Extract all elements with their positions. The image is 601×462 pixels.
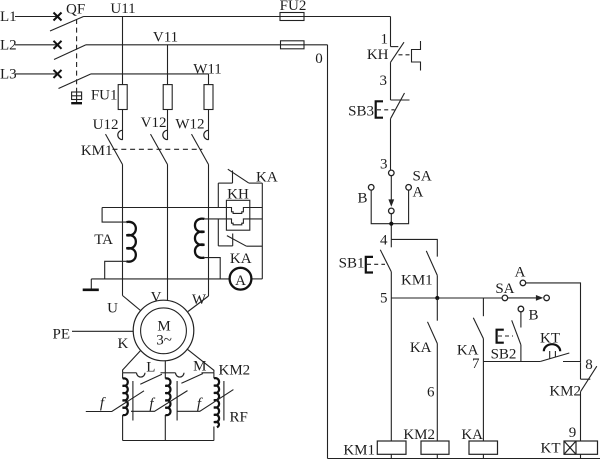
- svg-text:W11: W11: [193, 62, 222, 78]
- breaker QF terminal X L3: [54, 70, 62, 78]
- wire L rotor lead: [164, 361, 166, 373]
- current transformer TA secondary coil (W phase): [195, 219, 204, 258]
- contactor KM1 coil: [377, 441, 406, 454]
- wire K rotor lead: [123, 351, 141, 373]
- contactor KM1 main contact U blade: [106, 134, 123, 164]
- pushbutton SB3 plunger: [376, 101, 383, 117]
- wire meter right lead: [251, 278, 262, 280]
- selector SA deck2 B terminal: [518, 306, 524, 312]
- svg-text:KM1: KM1: [401, 273, 433, 289]
- pushbutton SB3 link dashes: [377, 109, 395, 111]
- svg-text:U12: U12: [93, 117, 119, 133]
- selector SA deck2 A terminal: [520, 280, 526, 286]
- svg-text:U: U: [107, 301, 118, 317]
- resistor RF phase M coil: [214, 373, 219, 427]
- motor M inner circle: [141, 308, 187, 354]
- breaker QF mechanical link (dashed): [76, 19, 78, 90]
- thermal relay KH heater box: [226, 200, 249, 230]
- breaker QF terminal X L1: [54, 13, 62, 21]
- contactor KM2 rotor contact 2 blade: [181, 374, 203, 384]
- relay KA shunt contact upper (NC): [218, 169, 262, 183]
- svg-text:B: B: [357, 191, 367, 207]
- contactor KM1 main contact U fixed hook: [118, 130, 123, 139]
- svg-text:f: f: [100, 396, 106, 412]
- resistor RF phase M core bar: [223, 381, 225, 421]
- wire L1 bus to control tap: [84, 16, 391, 18]
- wire rotor bank top right segment: [202, 372, 214, 374]
- wire KT coil stub: [580, 454, 582, 458]
- variability arrow f3: [178, 390, 234, 412]
- svg-text:W: W: [192, 292, 207, 308]
- svg-text:L3: L3: [0, 67, 17, 83]
- variability arrow f2: [131, 391, 188, 412]
- svg-text:8: 8: [585, 357, 593, 373]
- svg-text:W12: W12: [175, 117, 204, 133]
- junction node 4 top: [389, 222, 393, 226]
- fuse FU1 V phase: [163, 85, 172, 110]
- pushbutton SB1 contact (NO): [380, 239, 391, 298]
- wire V12: [167, 110, 169, 140]
- svg-text:0: 0: [315, 51, 323, 67]
- wire loop left vertical lower: [217, 219, 219, 246]
- wire loop left vertical upper: [217, 183, 219, 207]
- svg-text:RF: RF: [230, 410, 248, 426]
- svg-text:5: 5: [380, 291, 388, 307]
- svg-text:4: 4: [380, 233, 388, 249]
- fuse FU1 U phase: [118, 85, 127, 110]
- wire KM1 coil branch: [390, 298, 392, 441]
- contactor KM1 main contact W fixed hook: [204, 130, 209, 139]
- contactor KM1 main contact W blade: [192, 134, 209, 164]
- wire node 4 branch: [391, 239, 437, 256]
- ground symbol: [83, 279, 99, 290]
- wire U phase down: [122, 165, 124, 296]
- wire U stator lead: [123, 296, 141, 311]
- wire KM1 coil stub: [390, 454, 392, 458]
- wire M coil to bottom: [213, 427, 215, 441]
- wire node 3: [390, 62, 392, 100]
- contactor KM2 rotor contact 1 fixed hook: [137, 373, 146, 377]
- svg-text:V12: V12: [141, 115, 167, 131]
- wire W stator lead: [188, 296, 209, 312]
- svg-text:7: 7: [472, 356, 480, 372]
- contactor KM2 rotor contact 1 blade: [140, 374, 162, 384]
- svg-text:K: K: [118, 336, 129, 352]
- svg-text:SB1: SB1: [339, 256, 365, 272]
- wire control hot drop: [390, 17, 392, 47]
- wire KA coil stub: [482, 454, 484, 458]
- svg-text:f: f: [149, 396, 155, 412]
- wire PE lead: [72, 330, 133, 332]
- selector SA deck1 B terminal: [368, 185, 374, 191]
- svg-text:KM1: KM1: [81, 143, 113, 159]
- contactor KM1 main contact V fixed hook: [163, 130, 168, 139]
- wire L3 feeder: [15, 73, 58, 75]
- svg-text:KH: KH: [367, 47, 389, 63]
- svg-text:9: 9: [569, 425, 577, 441]
- svg-text:U11: U11: [110, 1, 135, 17]
- selector SA deck2 off terminal: [544, 295, 550, 301]
- wire M rotor lead: [187, 349, 214, 373]
- svg-text:SB2: SB2: [491, 347, 517, 363]
- fuse FU2 (L1 branch): [280, 13, 304, 21]
- svg-text:TA: TA: [94, 232, 113, 248]
- contactor KM1 main contact V blade: [151, 134, 168, 164]
- svg-text:L2: L2: [0, 38, 17, 54]
- svg-text:SA: SA: [495, 281, 514, 297]
- svg-text:KM2: KM2: [549, 384, 581, 400]
- wire L3 bus: [91, 73, 209, 75]
- resistor RF phase K coil: [123, 373, 128, 415]
- svg-text:L: L: [146, 360, 155, 376]
- wire V phase down: [167, 165, 169, 301]
- wire rotor bank bottom: [123, 440, 214, 442]
- svg-text:B: B: [529, 308, 539, 324]
- svg-text:KM2: KM2: [403, 427, 435, 443]
- svg-text:L1: L1: [0, 9, 17, 25]
- junction node 5 dot: [435, 296, 439, 300]
- svg-text:3: 3: [380, 73, 388, 89]
- wire heater line 1: [102, 208, 262, 214]
- selector SA deck1 off terminal: [389, 208, 395, 214]
- breaker QF trip unit symbol: [71, 90, 82, 103]
- svg-text:KT: KT: [541, 441, 561, 457]
- selector SA deck2 moving arrow: [508, 295, 544, 301]
- selector SA deck1 A terminal: [406, 185, 412, 191]
- time relay KT contact blade (delayed NO): [540, 353, 569, 362]
- svg-text:1: 1: [381, 32, 389, 48]
- pushbutton SB1 link dashes: [367, 263, 385, 265]
- wire node 3 lower: [390, 119, 392, 170]
- wire node 5: [391, 297, 502, 299]
- wire rotor bank top left segment: [123, 372, 137, 374]
- wire W phase down: [208, 165, 210, 297]
- wire KT contact right: [563, 361, 581, 363]
- contactor KM2 aux contact (NC): [581, 362, 597, 441]
- wire SA deck1 off leg: [390, 214, 392, 240]
- svg-text:6: 6: [427, 385, 435, 401]
- thermal relay KH trip lever symbol: [399, 41, 421, 71]
- relay KA coil: [469, 441, 498, 454]
- wire L2 bus to 0 tap: [86, 44, 328, 46]
- wire TA secondary top step: [102, 208, 126, 223]
- svg-text:SA: SA: [413, 169, 432, 185]
- svg-text:KA: KA: [410, 340, 432, 356]
- wire A position to right rail: [526, 283, 581, 362]
- breaker QF terminal X L2: [54, 41, 62, 49]
- wire TA secondary bottom step: [105, 261, 127, 279]
- svg-text:V11: V11: [153, 30, 178, 46]
- svg-text:3: 3: [380, 157, 388, 173]
- svg-text:FU1: FU1: [91, 88, 118, 104]
- wire loop right vertical: [261, 183, 263, 279]
- wire W12: [208, 110, 210, 140]
- wire L coil to bottom: [164, 415, 166, 441]
- svg-text:QF: QF: [66, 2, 85, 18]
- relay KA contact in KA-coil branch (NO): [473, 298, 483, 441]
- wire ground bus: [91, 278, 229, 280]
- contactor KM2 rotor contact 2 fixed hook: [176, 373, 185, 377]
- wire KM2 coil stub: [436, 454, 438, 458]
- svg-text:V: V: [151, 290, 162, 306]
- selector SA deck2 common terminal: [502, 295, 508, 301]
- contactor KM2 coil: [421, 441, 449, 454]
- contactor KM1 aux contact (NO): [426, 251, 437, 298]
- variability arrow f1: [86, 391, 144, 412]
- current transformer TA secondary coil (U phase): [126, 222, 135, 262]
- pushbutton SB3 contact (NC): [391, 93, 410, 119]
- breaker QF pole blade L1: [50, 17, 84, 32]
- wire K coil to bottom: [122, 415, 124, 441]
- wire U11 drop: [122, 17, 124, 85]
- wire heater line 2: [204, 219, 262, 225]
- svg-text:KA: KA: [230, 251, 252, 267]
- pushbutton SB2 contact (NO): [512, 320, 521, 361]
- wire W11 drop: [208, 74, 210, 85]
- thermal relay KH contact (NC): [391, 42, 405, 62]
- wire U12: [122, 110, 124, 140]
- wire W-CT secondary bottom step: [204, 258, 220, 279]
- svg-text:SB3: SB3: [348, 104, 374, 120]
- wire V11 drop: [167, 45, 169, 85]
- time relay KT delay symbol: [544, 344, 560, 358]
- svg-text:FU2: FU2: [280, 0, 307, 14]
- resistor RF phase K core bar: [132, 381, 134, 421]
- svg-text:KA: KA: [461, 427, 483, 443]
- svg-text:A: A: [515, 265, 526, 281]
- svg-text:PE: PE: [52, 327, 70, 343]
- svg-text:3~: 3~: [156, 333, 172, 349]
- wire control bottom bus: [328, 458, 601, 460]
- selector SA deck1 moving arrow: [388, 176, 394, 207]
- motor M outer circle: [133, 300, 194, 361]
- svg-text:KM1: KM1: [343, 443, 375, 459]
- breaker QF pole blade L2: [54, 45, 86, 60]
- svg-text:KM2: KM2: [219, 363, 251, 379]
- relay KA contact in KM2 branch (NO): [428, 298, 438, 441]
- ammeter A: [230, 268, 252, 290]
- svg-text:A: A: [235, 273, 246, 289]
- svg-text:KT: KT: [540, 331, 560, 347]
- selector SA deck1 common terminal: [389, 170, 395, 176]
- resistor RF phase L core bar: [176, 381, 178, 421]
- relay KA shunt contact lower (NC): [218, 234, 262, 247]
- pushbutton SB2 link dashes: [498, 335, 513, 337]
- wire L1 feeder: [15, 16, 58, 18]
- wire 0 rail: [327, 45, 329, 459]
- fuse FU1 W phase: [204, 85, 213, 110]
- wire B position drop: [520, 312, 522, 328]
- svg-text:A: A: [413, 185, 424, 201]
- breaker QF pole blade L3: [59, 74, 92, 89]
- fuse FU2 (V11 branch): [281, 41, 305, 49]
- svg-text:KA: KA: [256, 170, 278, 186]
- wire L2 feeder: [15, 44, 58, 46]
- svg-text:M: M: [193, 359, 206, 375]
- pushbutton SB2 plunger: [497, 330, 504, 343]
- contactor KM1 mechanical link (dashed): [113, 148, 203, 150]
- pushbutton SB1 plunger: [366, 257, 373, 273]
- wire rotor bank top mid-left segment: [161, 372, 176, 374]
- wire node 7 row: [483, 361, 540, 363]
- resistor RF phase L coil: [165, 373, 170, 415]
- time relay KT coil: [564, 441, 598, 454]
- wire SA deck1 B leg: [371, 190, 408, 224]
